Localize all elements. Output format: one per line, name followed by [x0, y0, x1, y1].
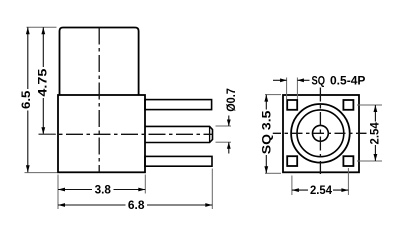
- dimension 6.8: left arrowhead: [58, 203, 65, 207]
- svg-text:3.8: 3.8: [95, 182, 112, 196]
- dimension 2.54 bottom: right arrowhead: [341, 188, 348, 192]
- dimension 3.8: right arrowhead: [138, 188, 145, 192]
- dimension 2.54 bottom: extension line left: [291, 176, 293, 196]
- dimension 4.75: bottom arrowhead: [41, 127, 45, 134]
- left view: upper connector body: [60, 28, 139, 96]
- left view: top pin: [145, 100, 212, 110]
- svg-text:2.54: 2.54: [310, 183, 332, 197]
- dimension 6.5: bottom arrowhead: [26, 165, 30, 172]
- right view: mounting pin bottom-right: [343, 156, 353, 166]
- dimension 2.54 right: extension line top: [357, 104, 382, 106]
- dimension 3.8: dimension line: [58, 189, 145, 191]
- dimension 6.5: dimension line: [27, 27, 29, 172]
- right view: vertical centerline: [319, 88, 321, 175]
- dimension 2.54 right: bottom arrowhead: [374, 154, 378, 161]
- right view: horizontal centerline: [270, 132, 367, 134]
- dimension 6.5: label: [19, 89, 33, 111]
- left view: vertical centerline: [98, 28, 100, 173]
- dimension SQ 0.5-4P: right leader line: [297, 79, 309, 81]
- right view: center pin circle: [313, 125, 329, 141]
- dimension 4.75: dimension line: [42, 27, 44, 134]
- dimension 2.54 right: dimension line: [374, 105, 376, 161]
- left view: center pin: [145, 126, 213, 142]
- dimension 3.8: label: [92, 182, 114, 196]
- left view: horizontal centerline: [39, 133, 213, 135]
- svg-text:SQ 3.5: SQ 3.5: [260, 110, 274, 154]
- dimension 3.8: extension line right: [144, 175, 146, 194]
- dimension 4.75: label: [35, 67, 49, 98]
- dimension SQ 0.5-4P: right arrowhead: [297, 78, 304, 82]
- dimension 6.5: extension line bottom: [25, 172, 58, 174]
- dimension 6.8: extension line right: [211, 169, 213, 210]
- svg-text:SQ0.5-4P: SQ0.5-4P: [312, 73, 366, 87]
- dimension 2.54 right: top arrowhead: [374, 105, 378, 112]
- left view: base block: [58, 95, 145, 172]
- dimension SQ 0.5-4P: extension line left: [286, 78, 288, 100]
- dimension 6.8: right arrowhead: [205, 203, 212, 207]
- dimension 6.5: extension line top: [27, 26, 57, 28]
- svg-text:4.75: 4.75: [35, 68, 49, 96]
- right view: mounting pin top-left: [287, 100, 297, 110]
- dimension SQ 3.5: label: [260, 110, 274, 156]
- dimension SQ 3.5: extension line top: [265, 94, 281, 96]
- dimension D0.7: upper dimension line: [228, 116, 230, 127]
- svg-text:6.5: 6.5: [19, 90, 33, 109]
- dimension 6.8: label: [126, 198, 148, 212]
- left view: bottom pin: [145, 156, 212, 166]
- dimension 2.54 bottom: extension line right: [347, 168, 349, 195]
- dimension SQ 0.5-4P: left arrowhead: [280, 78, 287, 82]
- dimension 3.8: extension line left: [57, 175, 59, 210]
- dimension D0.7: extension line lower: [216, 141, 232, 143]
- right view: square flange body: [283, 95, 359, 172]
- dimension SQ 0.5-4P: extension line right: [296, 78, 298, 100]
- dimension SQ 0.5-4P: left leader line: [273, 79, 287, 81]
- dimension SQ 3.5: bottom arrowhead: [264, 166, 268, 173]
- dimension SQ 3.5: top arrowhead: [264, 95, 268, 102]
- svg-text:2.54: 2.54: [368, 122, 382, 145]
- dimension 2.54 right: label: [368, 122, 382, 146]
- left view: center pin chamfer edge: [209, 126, 211, 142]
- dimension 2.54 bottom: dimension line: [292, 189, 349, 191]
- dimension 6.8: dimension line: [58, 204, 212, 206]
- dimension D0.7: upper arrowhead: [227, 120, 231, 127]
- dimension D0.7: extension line upper: [216, 125, 232, 127]
- right view: outer circle: [291, 104, 350, 163]
- right view: mounting pin bottom-left: [287, 156, 297, 166]
- dimension SQ 3.5: extension line bottom: [265, 172, 281, 174]
- right view: mounting pin top-right: [343, 100, 353, 110]
- dimension 2.54 bottom: left arrowhead: [292, 188, 299, 192]
- dimension 3.8: left arrowhead: [58, 188, 65, 192]
- dimension 2.54 right: extension line bottom: [357, 160, 382, 162]
- dimension D0.7: lower arrowhead: [227, 142, 231, 149]
- dimension SQ 3.5: dimension line: [265, 95, 267, 174]
- dimension D0.7: lower dimension line: [228, 142, 230, 153]
- dimension 6.5: top arrowhead: [26, 27, 30, 34]
- dimension 4.75: extension line at centerline: [39, 133, 57, 135]
- svg-text:Ø0.7: Ø0.7: [224, 88, 238, 112]
- right view: middle circle: [297, 110, 344, 157]
- svg-text:6.8: 6.8: [128, 198, 145, 212]
- dimension 2.54 bottom: label: [308, 183, 333, 197]
- dimension 4.75: top arrowhead: [41, 27, 45, 34]
